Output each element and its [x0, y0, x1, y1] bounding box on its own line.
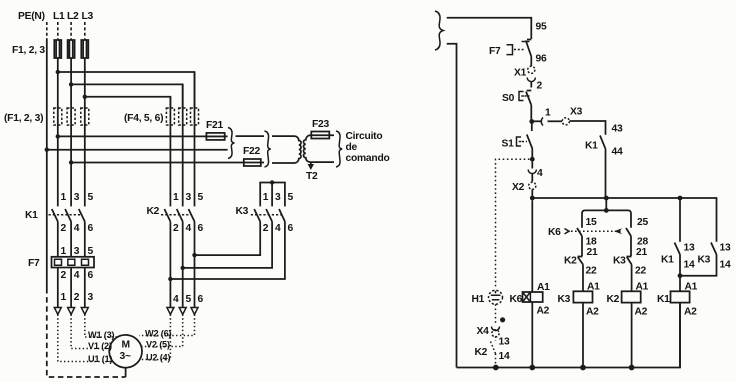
svg-text:K3: K3	[698, 255, 711, 266]
contactor K3 star bar	[260, 183, 285, 207]
svg-text:4: 4	[74, 270, 80, 281]
dotted wire H1 to X4	[495, 304, 497, 324]
node junction L1/F21	[56, 134, 60, 138]
wire F7 outputs down	[57, 268, 59, 308]
node junction L2/F22	[69, 160, 73, 164]
svg-text:3: 3	[275, 192, 281, 203]
svg-text:5: 5	[186, 294, 192, 305]
ground arrow T2	[310, 162, 312, 164]
terminal arrow 2	[68, 308, 75, 315]
svg-text:V2 (5): V2 (5)	[146, 340, 170, 350]
brace before transformer	[265, 131, 271, 167]
svg-text:PE(N): PE(N)	[18, 11, 45, 22]
svg-text:1: 1	[263, 192, 269, 203]
wire L2 top dashed stub	[70, 22, 72, 40]
wire feeder L1 to F4 column	[58, 72, 195, 108]
node junction X2 to rail	[530, 196, 535, 201]
wire timer left branch down	[581, 236, 583, 256]
svg-text:K6: K6	[548, 227, 561, 238]
svg-text:1: 1	[61, 192, 67, 203]
node junction S0/S1/X3	[529, 119, 534, 124]
contactor K2 main contacts	[164, 209, 170, 222]
svg-text:14: 14	[720, 260, 731, 271]
dotted motor wire from terminal 3 to W1	[85, 315, 117, 338]
svg-text:2: 2	[537, 81, 543, 92]
wire K3 out2 to K2 column2	[183, 222, 272, 268]
wire L1 top dashed stub	[57, 22, 59, 40]
svg-text:L3: L3	[82, 11, 94, 22]
svg-text:6: 6	[198, 223, 204, 234]
svg-text:6: 6	[88, 223, 94, 234]
wire K3 out3 to K2 column1	[170, 222, 285, 280]
stray junction dot	[500, 317, 505, 322]
svg-text:44: 44	[612, 147, 623, 158]
svg-text:comando: comando	[346, 153, 390, 164]
svg-text:1: 1	[545, 108, 551, 119]
svg-text:K2: K2	[564, 256, 577, 267]
wire K2 column1 down	[169, 222, 171, 308]
svg-text:4: 4	[173, 294, 179, 305]
fuse F2	[68, 40, 75, 58]
svg-text:K3: K3	[558, 294, 571, 305]
svg-text:K6: K6	[510, 294, 523, 305]
fuse (F5) dashed	[179, 108, 187, 125]
svg-text:(F4, 5, 6): (F4, 5, 6)	[124, 113, 163, 124]
wire control L to F7	[447, 18, 532, 39]
terminal arrow 3	[81, 308, 88, 315]
dotted motor wire from terminal 1 to U1	[58, 315, 113, 362]
node junction rail/K6 coil	[529, 365, 535, 371]
svg-text:H1: H1	[472, 294, 485, 305]
fuse F1	[54, 40, 61, 58]
svg-text:4: 4	[74, 223, 80, 234]
svg-text:K1: K1	[585, 141, 598, 152]
svg-text:22: 22	[635, 266, 646, 277]
wire brace to transformer primary top	[236, 135, 265, 137]
svg-text:X2: X2	[512, 182, 525, 193]
transformer T2 primary winding	[272, 136, 301, 163]
svg-text:S0: S0	[502, 93, 515, 104]
svg-text:13: 13	[684, 243, 695, 254]
svg-text:2: 2	[173, 223, 179, 234]
svg-text:5: 5	[88, 192, 94, 203]
terminal arrow 6	[191, 308, 198, 315]
node junction S1/X2	[530, 157, 535, 162]
svg-text:28: 28	[637, 237, 648, 248]
svg-text:(F1, 2, 3): (F1, 2, 3)	[4, 113, 43, 124]
wire K2 column3 down	[194, 222, 196, 308]
motor frame stub	[125, 368, 127, 377]
svg-text:K1: K1	[657, 294, 670, 305]
svg-text:F22: F22	[243, 146, 261, 157]
svg-text:F7: F7	[489, 46, 501, 57]
svg-text:A2: A2	[635, 307, 648, 318]
wire L3 top dashed stub	[84, 22, 86, 40]
svg-text:K2: K2	[607, 294, 620, 305]
contactor K3 mechanical link dashed	[251, 214, 282, 216]
svg-text:25: 25	[637, 217, 648, 228]
wire control bottom rail	[457, 303, 681, 368]
wire PE(N) top dashed stub	[46, 22, 48, 39]
terminal X2 with wire number 4	[531, 162, 533, 169]
wire L3 vertical column	[84, 58, 86, 206]
wire control N down left rail	[447, 44, 457, 368]
wire K1 outputs to F7	[57, 222, 59, 258]
contactor K3 main contacts	[254, 209, 260, 222]
fuse F3	[81, 40, 88, 58]
svg-text:3: 3	[186, 192, 192, 203]
terminal arrow 4	[167, 308, 174, 315]
wire L2 to fuse F22	[71, 162, 264, 164]
wire K2 column 2 vertical	[182, 84, 184, 206]
wire F7 to X1	[530, 57, 532, 67]
svg-text:2: 2	[74, 292, 80, 303]
svg-text:3: 3	[74, 192, 80, 203]
brace after F21	[228, 128, 234, 159]
node junction rail/K6	[604, 196, 609, 201]
svg-text:U1 (1): U1 (1)	[88, 354, 112, 364]
svg-text:A2: A2	[537, 306, 550, 317]
svg-text:T2: T2	[306, 171, 318, 182]
svg-text:5: 5	[288, 192, 294, 203]
svg-text:F7: F7	[28, 258, 40, 269]
fuse (F6) dashed	[191, 108, 199, 125]
svg-text:F1, 2, 3: F1, 2, 3	[12, 45, 45, 56]
svg-text:18: 18	[586, 237, 597, 248]
svg-text:M: M	[122, 340, 130, 351]
wire K2 column2 down	[182, 222, 184, 308]
wire K2 column 1 vertical	[169, 97, 171, 207]
terminal arrow 1	[54, 308, 61, 315]
contactor K1 mechanical link dashed	[49, 214, 83, 216]
dotted motor wire from terminal 5 to V2	[141, 315, 183, 347]
motor M 3~	[109, 335, 142, 368]
wire control top rail	[532, 198, 716, 242]
timer K6 bracket	[605, 198, 607, 210]
svg-text:6: 6	[288, 223, 294, 234]
svg-text:S1: S1	[502, 139, 515, 150]
wire L2 vertical column	[70, 58, 72, 206]
node junction rail/K3 coil	[580, 365, 586, 371]
svg-text:K3: K3	[613, 256, 626, 267]
wire feeder L3 to F6 column	[85, 97, 171, 108]
svg-text:de: de	[346, 142, 358, 153]
wire L1 vertical column	[57, 58, 59, 206]
fuse F23	[311, 132, 329, 139]
svg-text:A2: A2	[684, 307, 697, 318]
fuse F21	[206, 133, 224, 140]
dotted motor wire from terminal 2 to V1	[71, 315, 110, 349]
svg-text:X1: X1	[514, 68, 527, 79]
contactor K2 mechanical link dashed	[161, 214, 192, 216]
svg-text:1: 1	[61, 246, 67, 257]
svg-text:4: 4	[537, 168, 543, 179]
svg-text:L1: L1	[53, 11, 65, 22]
svg-text:21: 21	[587, 247, 598, 258]
svg-text:6: 6	[198, 294, 204, 305]
svg-text:A1: A1	[537, 282, 550, 293]
svg-text:22: 22	[586, 266, 597, 277]
svg-text:3: 3	[74, 246, 80, 257]
svg-text:13: 13	[720, 243, 731, 254]
wire PE to brace	[47, 149, 228, 151]
svg-text:L2: L2	[67, 11, 79, 22]
wire PE(N) dashed lower vertical to motor frame	[47, 288, 126, 377]
svg-text:W2 (6): W2 (6)	[145, 329, 172, 339]
wire K3 out1 to K2 column3	[195, 222, 261, 256]
fuse (F1) dashed	[54, 108, 62, 125]
svg-text:21: 21	[636, 247, 647, 258]
svg-text:1: 1	[173, 192, 179, 203]
node junction L1 feeder	[56, 70, 60, 74]
wire feeder L2 to F5 column	[71, 84, 183, 108]
contact K1 13-14	[679, 198, 681, 242]
svg-text:K3: K3	[236, 206, 249, 217]
brace control supply	[435, 11, 443, 50]
fuse (F4) dashed	[166, 108, 174, 125]
svg-text:2: 2	[61, 270, 67, 281]
svg-text:15: 15	[586, 217, 597, 228]
node junction K1 A1	[678, 273, 683, 278]
dotted link S1 to H1 branch	[496, 159, 530, 289]
brace before Circuito de comando	[336, 131, 342, 167]
svg-text:F21: F21	[206, 120, 224, 131]
dotted motor wire from terminal 4 to U2	[139, 315, 170, 360]
svg-text:U2 (4): U2 (4)	[146, 353, 170, 363]
transformer T2 secondary winding	[304, 135, 334, 162]
terminal arrow 5	[179, 308, 186, 315]
dotted motor wire from terminal 6 to W2	[139, 315, 195, 336]
wire K2 column 3 vertical	[194, 72, 196, 206]
timer K6 delay arrows and link	[565, 229, 570, 234]
svg-text:A2: A2	[586, 307, 599, 318]
fuse (F3) dashed	[81, 108, 89, 125]
svg-text:3: 3	[88, 292, 94, 303]
svg-text:14: 14	[499, 351, 510, 362]
svg-text:K1: K1	[661, 255, 674, 266]
svg-text:V1 (2): V1 (2)	[88, 341, 112, 351]
node junction rail/K1	[678, 196, 683, 201]
svg-text:K2: K2	[475, 347, 488, 358]
wire timer right branch down	[630, 236, 632, 256]
node junction rail/H1	[493, 365, 499, 371]
overload relay F7 body	[52, 257, 95, 268]
svg-text:4: 4	[275, 223, 281, 234]
svg-text:5: 5	[88, 246, 94, 257]
svg-text:14: 14	[684, 260, 695, 271]
svg-text:1: 1	[61, 292, 67, 303]
svg-text:K1: K1	[25, 210, 38, 221]
node junction PE branch	[45, 148, 49, 152]
contactor K1 main contacts	[52, 209, 58, 222]
svg-text:3~: 3~	[120, 351, 131, 362]
svg-text:2: 2	[263, 223, 269, 234]
svg-text:Circuito: Circuito	[346, 131, 383, 142]
svg-text:X4: X4	[477, 326, 490, 337]
svg-text:95: 95	[536, 22, 547, 33]
svg-text:6: 6	[88, 270, 94, 281]
node junction L3 feeder	[83, 95, 87, 99]
svg-text:13: 13	[499, 337, 510, 348]
svg-text:F23: F23	[312, 119, 330, 130]
wire L1 to fuse F21	[58, 135, 228, 137]
svg-text:43: 43	[612, 124, 623, 135]
svg-text:2: 2	[61, 223, 67, 234]
svg-text:5: 5	[198, 192, 204, 203]
wire PE(N) vertical	[46, 39, 48, 289]
svg-text:4: 4	[186, 223, 192, 234]
node junction L2 feeder	[69, 82, 73, 86]
fuse (F2) dashed	[67, 108, 75, 125]
fuse F22	[244, 159, 261, 166]
node junction rail/K2 coil	[629, 365, 635, 371]
svg-text:K2: K2	[147, 206, 160, 217]
svg-text:96: 96	[536, 54, 547, 65]
svg-text:X3: X3	[570, 107, 583, 118]
svg-text:W1 (3): W1 (3)	[88, 330, 115, 340]
